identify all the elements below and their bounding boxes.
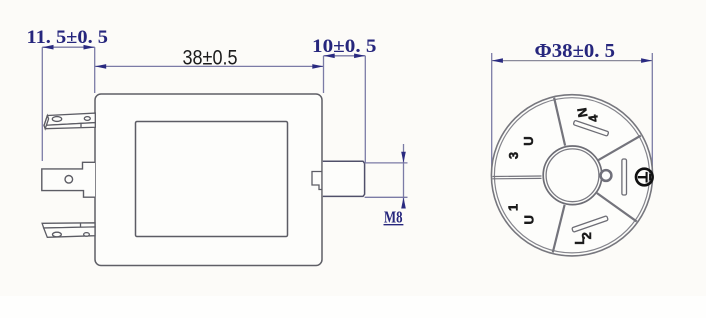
dim M8 arrows xyxy=(401,152,406,163)
svg-text:2: 2 xyxy=(579,232,594,239)
svg-text:Φ38±0. 5: Φ38±0. 5 xyxy=(535,40,616,62)
divider earth/L2 (lower right) xyxy=(597,193,637,222)
svg-text:11. 5±0. 5: 11. 5±0. 5 xyxy=(27,27,109,48)
dim 10 extension line left xyxy=(323,56,325,93)
ground symbol xyxy=(636,169,653,186)
terminal T1 (top spade) xyxy=(44,113,95,129)
svg-text:38±0.5: 38±0.5 xyxy=(183,46,238,70)
svg-text:M8: M8 xyxy=(384,208,403,227)
svg-text:U: U xyxy=(521,136,536,145)
svg-text:1: 1 xyxy=(505,204,520,211)
slot in earth segment xyxy=(622,159,627,195)
divider L2/U1 (lower left) xyxy=(553,205,565,253)
dim 38 line xyxy=(95,65,324,67)
divider U3/N4 (upper left) xyxy=(554,98,565,146)
dim M8 extension line bottom xyxy=(365,196,408,198)
coil inner window xyxy=(136,122,288,237)
stud M8 xyxy=(323,161,365,196)
face view outer inner ring xyxy=(494,98,649,253)
dim M8 extension line top xyxy=(365,162,408,164)
stud boss step on body right edge xyxy=(312,172,322,190)
pin dot on hole edge xyxy=(601,170,612,181)
slot in N4 segment xyxy=(573,120,609,136)
svg-text:10±0. 5: 10±0. 5 xyxy=(312,36,377,57)
face view outer circle xyxy=(491,95,652,256)
divider U3/U1 (left horizontal) xyxy=(493,175,542,178)
center hole inner ring xyxy=(546,149,599,202)
coil body outline xyxy=(95,94,322,266)
dim 11.5 line xyxy=(42,46,94,48)
dim 10 extension line right xyxy=(364,56,366,163)
dim 10 arrows xyxy=(324,54,335,59)
dim 11.5 extension line right xyxy=(94,47,96,93)
dim 11.5 arrows xyxy=(42,45,53,50)
divider N4/earth (upper right) xyxy=(598,136,640,161)
dim M8 vertical line xyxy=(403,144,405,206)
center hole outer ring xyxy=(543,146,602,205)
svg-text:U: U xyxy=(521,215,536,224)
slot in L2 segment xyxy=(572,216,608,233)
dim D38 line xyxy=(492,60,653,62)
dim 38 arrows xyxy=(95,64,106,69)
terminal T2 (middle spade) xyxy=(42,162,95,197)
dim D38 extension line left xyxy=(491,53,493,175)
dim 10 line xyxy=(324,55,366,57)
svg-text:3: 3 xyxy=(506,152,521,159)
dim D38 arrows xyxy=(492,58,503,63)
terminal T3 (bottom spade) xyxy=(42,223,95,238)
dim D38 extension line right xyxy=(651,53,653,183)
dim 11.5 extension line left xyxy=(41,47,43,161)
